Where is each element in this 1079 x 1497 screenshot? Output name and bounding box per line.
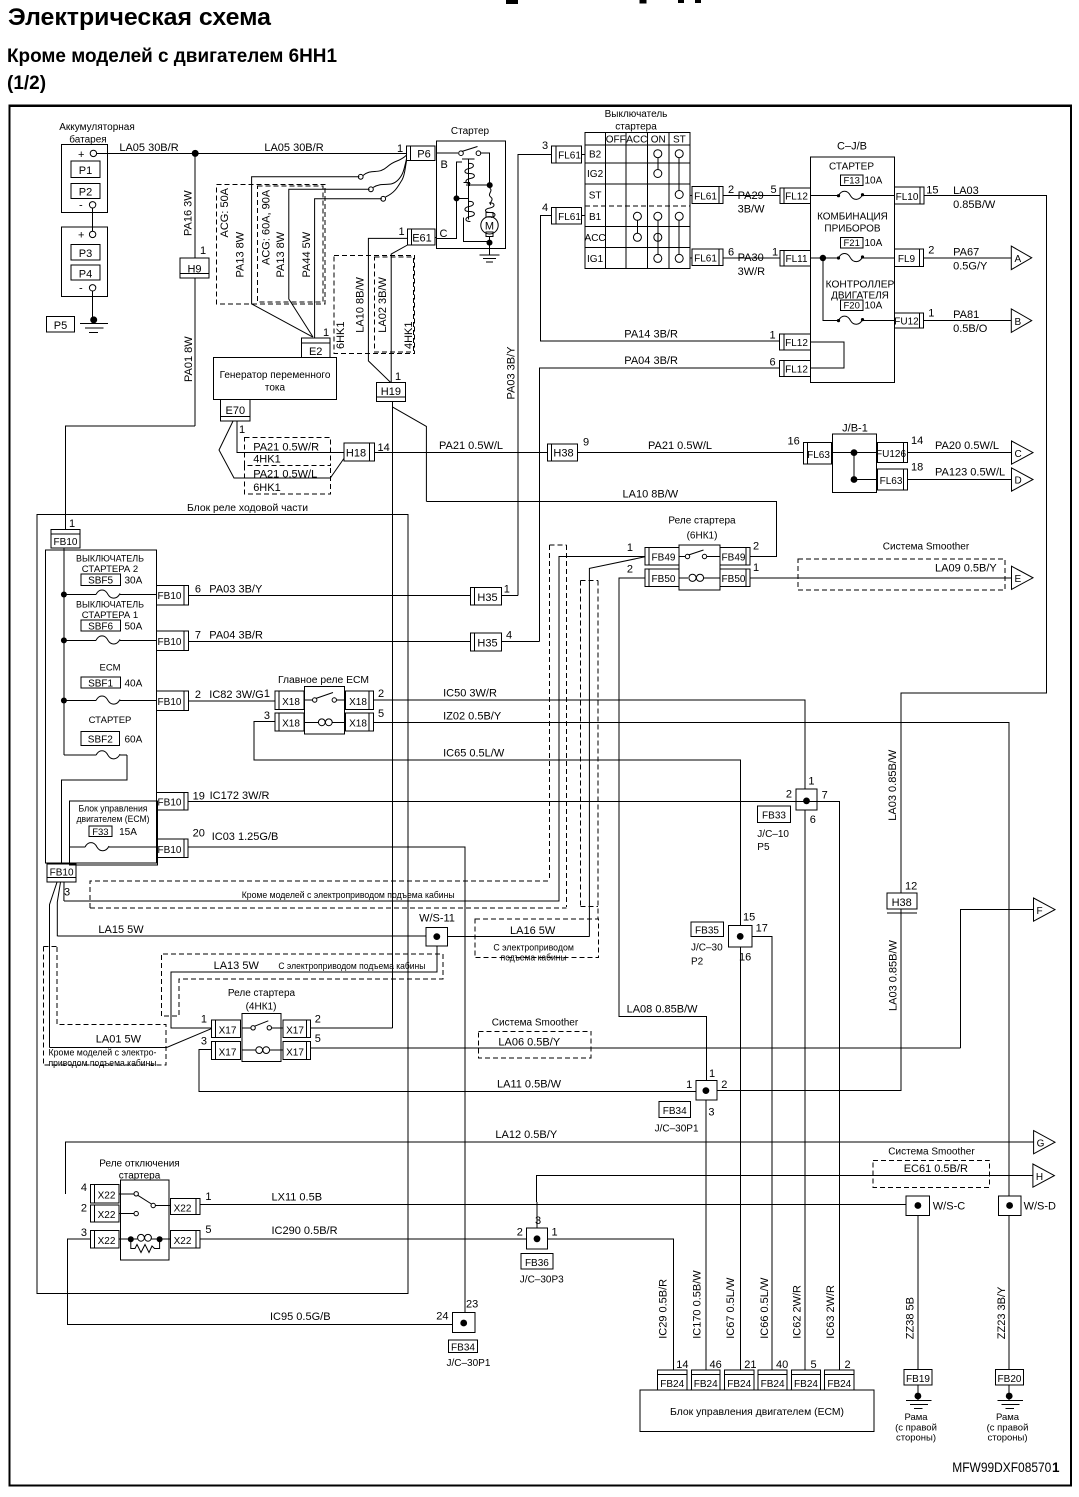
svg-text:+: + xyxy=(78,230,84,242)
svg-text:2: 2 xyxy=(517,1227,523,1239)
wire PA44 5W xyxy=(315,199,382,338)
svg-text:J/C–30P1: J/C–30P1 xyxy=(447,1358,491,1369)
svg-text:F21: F21 xyxy=(844,238,860,249)
svg-text:Главное реле ЕСМ: Главное реле ЕСМ xyxy=(278,675,369,686)
ground xyxy=(90,316,97,323)
svg-text:LA12 0.5B/Y: LA12 0.5B/Y xyxy=(495,1129,557,1141)
svg-text:2: 2 xyxy=(753,541,759,553)
wire LA01 diagonal to X17-1 xyxy=(50,1029,212,1048)
relay switch xyxy=(242,1027,251,1029)
svg-text:MFW99DXF08570: MFW99DXF08570 xyxy=(952,1460,1051,1475)
connector FB10 pin2 xyxy=(157,691,189,711)
arrow B xyxy=(1011,309,1031,333)
svg-text:IC62 2W/R: IC62 2W/R xyxy=(791,1285,803,1339)
svg-text:батарея: батарея xyxy=(69,134,106,146)
wire LA15 5W xyxy=(57,935,426,937)
svg-text:IC50 3W/R: IC50 3W/R xyxy=(443,688,497,700)
svg-text:2: 2 xyxy=(195,689,201,701)
wire FB33 pin7 right, down to FB24 xyxy=(817,802,839,1371)
dashed corridor pair A xyxy=(549,544,566,546)
connector FU126 xyxy=(878,443,908,463)
svg-text:G: G xyxy=(1037,1138,1045,1149)
wire H19 to LA10 row xyxy=(393,407,427,501)
wire from FB49-1 xyxy=(64,557,645,902)
svg-text:PA03 3B/Y: PA03 3B/Y xyxy=(209,584,263,596)
node junction xyxy=(192,150,199,157)
wires out of FB10 bottom xyxy=(50,882,58,1047)
svg-text:Аккумуляторная: Аккумуляторная xyxy=(59,122,135,133)
svg-text:ST: ST xyxy=(589,191,602,202)
wire LX11 0.5B xyxy=(200,1204,906,1206)
svg-text:FB24: FB24 xyxy=(794,1379,818,1390)
svg-text:LA05 30B/R: LA05 30B/R xyxy=(264,142,323,154)
svg-text:FL11: FL11 xyxy=(785,254,807,265)
svg-text:FB50: FB50 xyxy=(652,574,676,585)
svg-text:X17: X17 xyxy=(219,1026,237,1037)
svg-text:LA10 8B/W: LA10 8B/W xyxy=(623,489,679,501)
wire PA30 3W/R xyxy=(723,257,780,259)
wire PA21 0.5W/L xyxy=(374,452,547,454)
svg-text:1: 1 xyxy=(504,584,510,596)
svg-text:Рама: Рама xyxy=(996,1412,1020,1423)
cell P3 xyxy=(71,244,100,260)
dashed box LA01 except-cab-lift xyxy=(43,945,57,947)
svg-text:Реле стартера: Реле стартера xyxy=(668,516,736,527)
svg-text:FB50: FB50 xyxy=(722,574,746,585)
battery P1P2 box xyxy=(61,144,107,212)
svg-text:3: 3 xyxy=(64,887,70,899)
svg-text:Кроме моделей с электроприводо: Кроме моделей с электроприводом подъема … xyxy=(242,890,455,901)
svg-text:СТАРТЕРА 1: СТАРТЕРА 1 xyxy=(82,610,138,621)
svg-text:Система Smoother: Система Smoother xyxy=(883,542,970,553)
svg-text:E: E xyxy=(1015,574,1022,585)
svg-text:E2: E2 xyxy=(309,346,322,358)
svg-text:FB24: FB24 xyxy=(827,1379,851,1390)
svg-text:IG1: IG1 xyxy=(587,254,604,265)
connector FB10 pin1 xyxy=(51,530,80,548)
svg-text:FB10: FB10 xyxy=(54,537,78,548)
wire FB35 pin17 xyxy=(752,936,772,1370)
connector H35 pin1 xyxy=(471,587,502,605)
svg-text:IC290 0.5B/R: IC290 0.5B/R xyxy=(272,1225,338,1237)
battery P3P4 box xyxy=(61,227,107,297)
svg-text:PA29: PA29 xyxy=(738,190,764,202)
svg-text:IC66 0.5L/W: IC66 0.5L/W xyxy=(759,1277,771,1339)
connector X17 pin2 xyxy=(283,1020,311,1037)
svg-text:Реле отключения: Реле отключения xyxy=(99,1159,179,1170)
cropped heading fragments at top edge xyxy=(506,0,701,4)
svg-text:X17: X17 xyxy=(286,1026,304,1037)
svg-text:OFF: OFF xyxy=(606,135,626,146)
svg-text:10A: 10A xyxy=(865,176,883,187)
svg-text:Электрическая схема: Электрическая схема xyxy=(8,4,271,31)
svg-text:P3: P3 xyxy=(79,248,92,260)
svg-text:FB10: FB10 xyxy=(158,798,182,809)
svg-text:ПРИБОРОВ: ПРИБОРОВ xyxy=(824,223,881,234)
svg-text:1: 1 xyxy=(200,245,206,257)
svg-text:ACG: 50A: ACG: 50A xyxy=(219,187,231,237)
wire IC50 3W/R xyxy=(373,700,804,789)
svg-text:1: 1 xyxy=(686,1079,692,1091)
svg-text:PA81: PA81 xyxy=(953,309,979,321)
svg-text:14: 14 xyxy=(911,435,923,447)
cell P2 xyxy=(71,184,100,199)
svg-text:23: 23 xyxy=(466,1299,478,1311)
connector FB24 x6 xyxy=(658,1370,688,1390)
svg-text:PA20 0.5W/L: PA20 0.5W/L xyxy=(935,440,999,452)
svg-text:КОМБИНАЦИЯ: КОМБИНАЦИЯ xyxy=(817,211,888,222)
svg-text:LA16 5W: LA16 5W xyxy=(510,925,556,937)
relay contacts xyxy=(119,1193,134,1195)
arrow H xyxy=(1033,1164,1055,1187)
svg-text:FL9: FL9 xyxy=(898,254,916,265)
svg-text:3: 3 xyxy=(201,1036,207,1048)
svg-text:0.85B/W: 0.85B/W xyxy=(953,199,996,211)
svg-text:6: 6 xyxy=(195,584,201,596)
svg-text:15: 15 xyxy=(743,912,755,924)
wire LA10 8B/W xyxy=(426,502,776,557)
ground FB20 xyxy=(1008,1385,1010,1400)
svg-text:EC61 0.5B/R: EC61 0.5B/R xyxy=(904,1163,968,1175)
svg-text:B: B xyxy=(441,159,448,171)
svg-text:46: 46 xyxy=(710,1359,722,1371)
wire jog to FB10 xyxy=(66,426,196,530)
svg-text:1: 1 xyxy=(1052,1460,1060,1475)
svg-text:Кроме моделей с электро-: Кроме моделей с электро- xyxy=(49,1048,157,1059)
svg-text:(4НК1): (4НК1) xyxy=(246,1002,277,1013)
svg-text:FL12: FL12 xyxy=(785,338,808,349)
svg-text:FL63: FL63 xyxy=(880,476,903,487)
svg-text:12: 12 xyxy=(905,881,917,893)
svg-text:FB19: FB19 xyxy=(906,1374,930,1385)
svg-text:FB24: FB24 xyxy=(761,1379,785,1390)
svg-text:-: - xyxy=(79,283,83,295)
connector X22 pin5 xyxy=(170,1231,200,1248)
svg-text:двигателем (ЕСМ): двигателем (ЕСМ) xyxy=(77,814,150,825)
svg-text:C–J/B: C–J/B xyxy=(837,141,867,153)
svg-text:ZZ23 3B/Y: ZZ23 3B/Y xyxy=(996,1286,1008,1339)
svg-text:1: 1 xyxy=(627,542,633,554)
wire PA03 3B/Y xyxy=(189,595,471,597)
svg-text:Блок реле ходовой части: Блок реле ходовой части xyxy=(187,503,308,514)
svg-text:P4: P4 xyxy=(79,269,92,281)
ground FB19 xyxy=(917,1385,919,1400)
dashed box ACG 60A 90A xyxy=(258,186,324,302)
svg-text:P5: P5 xyxy=(757,842,770,853)
svg-text:1: 1 xyxy=(205,1191,211,1203)
connector FL61 PA30 xyxy=(692,249,723,266)
svg-text:2: 2 xyxy=(315,1014,321,1026)
svg-text:LA05 30B/R: LA05 30B/R xyxy=(119,142,178,154)
svg-text:PA21 0.5W/R: PA21 0.5W/R xyxy=(253,442,319,454)
connector H18 xyxy=(344,443,375,461)
dashed box with-cab-lift (LA16) xyxy=(475,919,599,958)
svg-text:2: 2 xyxy=(378,688,384,700)
svg-text:LA11 0.5B/W: LA11 0.5B/W xyxy=(497,1079,562,1091)
svg-text:ST: ST xyxy=(673,135,686,146)
connector FL12 pin1 xyxy=(780,334,811,350)
svg-text:PA01 8W: PA01 8W xyxy=(183,336,195,382)
svg-text:IC29 0.5B/R: IC29 0.5B/R xyxy=(658,1279,670,1339)
svg-text:X17: X17 xyxy=(286,1047,304,1058)
svg-text:F20: F20 xyxy=(844,301,860,312)
wire X17-2 to LA02 xyxy=(311,1027,393,1029)
wire to ground xyxy=(92,291,94,320)
svg-text:30A: 30A xyxy=(125,576,143,587)
svg-text:FB36: FB36 xyxy=(525,1258,549,1269)
svg-text:ВЫКЛЮЧАТЕЛЬ: ВЫКЛЮЧАТЕЛЬ xyxy=(76,554,144,565)
wire PA04 3B/R to FL12 xyxy=(539,368,779,641)
fuse F20 wire xyxy=(823,258,838,321)
svg-text:4: 4 xyxy=(542,202,548,214)
svg-text:IZ02 0.5B/Y: IZ02 0.5B/Y xyxy=(443,710,502,722)
wire IC29 down xyxy=(548,1239,674,1370)
svg-text:20: 20 xyxy=(193,828,205,840)
wire ZZ23 3B/Y xyxy=(1008,1215,1010,1369)
svg-text:FB24: FB24 xyxy=(727,1379,751,1390)
svg-text:1: 1 xyxy=(928,308,934,320)
svg-text:FU12: FU12 xyxy=(894,317,919,328)
svg-text:PA14 3B/R: PA14 3B/R xyxy=(624,329,678,341)
wire PA123 0.5W/L xyxy=(908,479,1012,481)
svg-text:SBF6: SBF6 xyxy=(88,622,113,633)
svg-text:FB34: FB34 xyxy=(663,1106,687,1117)
wire PA16 3W xyxy=(194,153,196,258)
dashed box except-cab-lift xyxy=(90,881,550,908)
svg-text:F13: F13 xyxy=(844,176,860,187)
svg-text:3: 3 xyxy=(535,1215,541,1227)
relay body xyxy=(679,545,720,590)
svg-text:P6: P6 xyxy=(417,149,430,161)
svg-text:Система Smoother: Система Smoother xyxy=(492,1018,579,1029)
svg-text:7: 7 xyxy=(195,629,201,641)
svg-text:FU126: FU126 xyxy=(876,449,906,460)
connector X18 pin1 xyxy=(275,691,304,709)
svg-text:J/B-1: J/B-1 xyxy=(842,423,868,435)
svg-text:10A: 10A xyxy=(865,301,883,312)
connector FL9 xyxy=(894,249,923,266)
svg-text:14: 14 xyxy=(676,1359,688,1371)
ECM box xyxy=(640,1390,874,1431)
connector FB10 pin7 xyxy=(157,631,189,651)
svg-text:2: 2 xyxy=(728,184,734,196)
connector FB50 right xyxy=(720,569,750,587)
connector FU12 xyxy=(894,313,923,328)
svg-text:СТАРТЕР: СТАРТЕР xyxy=(829,162,874,173)
svg-text:FL61: FL61 xyxy=(558,212,581,223)
connector X17 pin1 xyxy=(211,1020,240,1037)
svg-text:15A: 15A xyxy=(119,827,137,838)
connector H9 xyxy=(180,258,209,278)
wire PA03 3B/Y drop xyxy=(518,154,551,595)
svg-text:F33: F33 xyxy=(92,827,108,838)
svg-text:X22: X22 xyxy=(98,1190,116,1201)
wire LA09 0.5B/Y xyxy=(750,577,1012,579)
svg-text:PA13 8W: PA13 8W xyxy=(275,231,287,277)
wire PA81 0.5B/O xyxy=(924,320,1012,322)
svg-text:X18: X18 xyxy=(349,719,367,730)
svg-text:FB33: FB33 xyxy=(762,811,786,822)
solenoid coil 1 xyxy=(462,158,475,160)
svg-text:FB35: FB35 xyxy=(695,926,719,937)
svg-text:17: 17 xyxy=(756,923,768,935)
ground under starter xyxy=(489,243,491,256)
svg-text:Генератор переменного: Генератор переменного xyxy=(220,370,331,381)
svg-text:X17: X17 xyxy=(219,1047,237,1058)
svg-text:тока: тока xyxy=(265,383,286,394)
wire LA10 8B/W xyxy=(368,238,407,382)
wire FB35 through down xyxy=(739,947,741,1370)
svg-text:18: 18 xyxy=(911,462,923,474)
junction FB34 J/C-30P1 (2) xyxy=(453,1313,476,1333)
wire PA29 3B/W xyxy=(723,195,780,197)
arrow G xyxy=(1034,1131,1055,1154)
svg-text:Стартер: Стартер xyxy=(451,126,490,137)
svg-text:D: D xyxy=(1015,476,1022,487)
svg-text:LA13 5W: LA13 5W xyxy=(214,960,260,972)
svg-text:H18: H18 xyxy=(346,448,366,460)
svg-text:FL10: FL10 xyxy=(896,192,919,203)
svg-text:LA02 3B/W: LA02 3B/W xyxy=(377,276,389,332)
svg-text:FB34: FB34 xyxy=(451,1342,475,1353)
svg-text:Реле стартера: Реле стартера xyxy=(228,988,296,999)
solenoid coil 2 xyxy=(454,195,460,201)
svg-text:4HK1: 4HK1 xyxy=(403,321,415,349)
svg-text:FL61: FL61 xyxy=(694,191,717,202)
bus wire xyxy=(63,548,65,755)
arrow A xyxy=(1011,246,1031,270)
svg-text:P2: P2 xyxy=(79,187,92,199)
svg-text:PA123 0.5W/L: PA123 0.5W/L xyxy=(935,467,1005,479)
wire X17-5 LA06 row xyxy=(311,1047,961,1049)
svg-text:2: 2 xyxy=(81,1203,87,1215)
svg-text:LA15 5W: LA15 5W xyxy=(98,924,144,936)
svg-text:ZZ38 5B: ZZ38 5B xyxy=(905,1297,917,1339)
wire H35-4 to FL12-6 xyxy=(501,641,539,643)
svg-text:Блок управления: Блок управления xyxy=(79,804,148,815)
motor M xyxy=(486,212,493,217)
junction nodes xyxy=(851,449,858,456)
svg-text:0.5B/O: 0.5B/O xyxy=(953,323,988,335)
svg-text:B2: B2 xyxy=(589,150,602,161)
wire PA21 0.5W/L from E70 xyxy=(219,421,344,478)
svg-text:5: 5 xyxy=(378,708,384,720)
wire PA04 3B/R xyxy=(189,641,471,643)
svg-text:1: 1 xyxy=(770,330,776,342)
svg-text:1: 1 xyxy=(69,518,75,530)
svg-text:A: A xyxy=(1015,254,1022,265)
svg-text:50A: 50A xyxy=(125,622,143,633)
svg-text:IC63 2W/R: IC63 2W/R xyxy=(825,1285,837,1339)
relay coil xyxy=(242,1049,256,1051)
svg-text:3B/W: 3B/W xyxy=(738,204,766,216)
svg-text:IC95 0.5G/B: IC95 0.5G/B xyxy=(270,1311,331,1323)
svg-text:Блок управления двигателем (Е: Блок управления двигателем (ЕСМ) xyxy=(670,1407,844,1418)
wire PA13 8W (ACG 50A) xyxy=(252,177,360,337)
svg-text:M: M xyxy=(485,221,494,233)
svg-text:(1/2): (1/2) xyxy=(7,73,46,94)
svg-text:24: 24 xyxy=(436,1311,448,1323)
svg-text:LA09 0.5B/Y: LA09 0.5B/Y xyxy=(935,563,997,575)
svg-text:21: 21 xyxy=(744,1359,756,1371)
svg-text:W/S-11: W/S-11 xyxy=(419,913,455,925)
svg-text:СТАРТЕР: СТАРТЕР xyxy=(89,715,132,726)
svg-text:W/S-C: W/S-C xyxy=(933,1201,965,1213)
svg-text:FL12: FL12 xyxy=(785,192,808,203)
svg-text:2: 2 xyxy=(627,564,633,576)
junction FB33 J/C-10 xyxy=(796,789,817,810)
arrow C xyxy=(1012,441,1034,464)
arrow E xyxy=(1012,566,1034,589)
wire PA13 8W (ACG 60A) xyxy=(289,189,370,337)
squiggle wires to P6 xyxy=(363,155,407,176)
svg-text:2: 2 xyxy=(721,1079,727,1091)
svg-text:H35: H35 xyxy=(477,592,497,604)
svg-text:E61: E61 xyxy=(412,233,432,245)
svg-text:40A: 40A xyxy=(125,679,143,690)
svg-text:X18: X18 xyxy=(349,697,367,708)
svg-text:5: 5 xyxy=(315,1033,321,1045)
connector FL63 pin16 xyxy=(804,443,832,465)
connector FB20 xyxy=(996,1370,1024,1385)
svg-text:P1: P1 xyxy=(79,165,92,177)
svg-text:FB49: FB49 xyxy=(652,553,676,564)
svg-text:FB10: FB10 xyxy=(158,697,182,708)
svg-text:J/C–30P3: J/C–30P3 xyxy=(520,1274,564,1285)
svg-text:H: H xyxy=(1036,1172,1043,1183)
svg-text:60A: 60A xyxy=(125,735,143,746)
connector X22 pin4 xyxy=(90,1184,119,1203)
svg-text:0.5G/Y: 0.5G/Y xyxy=(953,261,988,273)
svg-text:LA01 5W: LA01 5W xyxy=(96,1034,142,1046)
wire IC172 3W/R xyxy=(188,801,840,803)
svg-text:4HK1: 4HK1 xyxy=(253,454,281,466)
svg-text:LA03 0.85B/W: LA03 0.85B/W xyxy=(887,939,899,1011)
dashed box ACG 50A xyxy=(217,184,325,304)
svg-text:FB10: FB10 xyxy=(158,637,182,648)
connector FL12 pin5 xyxy=(780,188,811,203)
svg-text:IG2: IG2 xyxy=(587,169,604,180)
wire LA08 from FB50-2 xyxy=(619,578,707,1081)
svg-text:IC82 3W/G: IC82 3W/G xyxy=(209,689,263,701)
svg-text:С электроприводом подъема каби: С электроприводом подъема кабины xyxy=(278,961,425,972)
left branch to C xyxy=(437,162,462,238)
svg-text:PA30: PA30 xyxy=(738,252,764,264)
svg-text:H19: H19 xyxy=(381,386,401,398)
svg-text:Система Smoother: Система Smoother xyxy=(888,1147,975,1158)
svg-text:7: 7 xyxy=(822,790,828,802)
svg-text:5: 5 xyxy=(205,1224,211,1236)
wire IC82 3W/G xyxy=(189,700,276,702)
svg-text:W/S-D: W/S-D xyxy=(1024,1201,1056,1213)
wire IZ02 0.5B/Y xyxy=(373,722,1009,1196)
svg-text:PA21 0.5W/L: PA21 0.5W/L xyxy=(439,440,503,452)
connector FL10 xyxy=(894,187,924,204)
wire IC170 down xyxy=(705,1100,707,1370)
svg-text:P2: P2 xyxy=(691,957,704,968)
svg-text:PA44 5W: PA44 5W xyxy=(301,231,313,277)
wire ZZ38 5B xyxy=(917,1215,919,1369)
connector P5 xyxy=(47,317,75,332)
svg-text:J/C–10: J/C–10 xyxy=(757,829,789,840)
svg-text:SBF1: SBF1 xyxy=(88,679,113,690)
svg-text:SBF5: SBF5 xyxy=(88,576,113,587)
svg-text:Рама: Рама xyxy=(904,1412,928,1423)
dashed box PA21 4HK1 xyxy=(245,438,331,466)
arrow D xyxy=(1012,468,1034,491)
connector FL12 pin6 xyxy=(780,360,811,376)
connector FL61 pin3 xyxy=(552,146,582,163)
